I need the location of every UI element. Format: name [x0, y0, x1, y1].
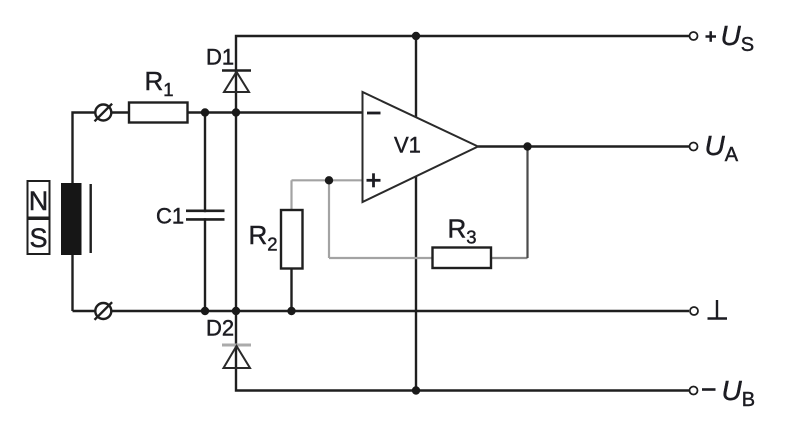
junction bottom rail [412, 386, 420, 394]
label +US [706, 20, 755, 56]
svg-text:S: S [29, 223, 47, 253]
wire R2 bottom to ground [290, 269, 292, 312]
wire feedback node down (gray) [328, 180, 330, 258]
junction noninverting node [325, 176, 333, 184]
junction R2 bottom [287, 307, 295, 315]
magnet N pole box [28, 181, 50, 218]
wire inverting input rail [103, 111, 363, 113]
wire C1 branch vertical [204, 113, 206, 312]
junction C1 top [201, 108, 209, 116]
junction output node [523, 142, 531, 150]
wire ground rail [73, 310, 690, 312]
svg-text:D1: D1 [206, 45, 234, 70]
svg-text:C1: C1 [156, 203, 184, 228]
terminal +US [690, 32, 698, 40]
resistor R1 [129, 103, 188, 123]
wire R3 right stub (gray) [491, 257, 528, 259]
terminal UA [690, 143, 698, 151]
wire output rail UA [478, 145, 689, 147]
capacitor C1 [186, 211, 225, 220]
wire D2 to bottom rail [236, 311, 689, 391]
terminal -UB [690, 387, 698, 395]
wire left sensor loop vertical [73, 113, 104, 312]
junction D2 top [232, 307, 240, 315]
terminal ground [690, 307, 698, 315]
resistor R2 [281, 210, 303, 269]
inductive sensor coil [61, 183, 82, 255]
ground symbol [708, 300, 728, 319]
wire top rail +US [236, 36, 689, 113]
svg-text:V1: V1 [394, 133, 421, 158]
wire feedback vertical to output [526, 147, 528, 259]
svg-text:D2: D2 [206, 316, 234, 341]
diode D1 [222, 71, 251, 93]
wire feedback to R3 left (gray) [329, 257, 433, 259]
wire D1-D2 branch vertical [235, 113, 237, 312]
magnet S pole box [28, 219, 50, 254]
wire noninverting input (gray) [292, 179, 363, 181]
wire op-amp supply vertical [415, 36, 417, 391]
label -UB [702, 375, 755, 411]
resistor R3 [433, 248, 492, 269]
terminal top screw [95, 104, 113, 122]
junction on top rail [412, 32, 420, 40]
terminal bottom screw [95, 302, 113, 320]
junction D1 bottom [232, 108, 240, 116]
svg-text:N: N [29, 186, 49, 216]
sensor core line [89, 184, 91, 253]
junction C1 bottom [201, 307, 209, 315]
op-amp U1 [363, 92, 479, 202]
wire R2 top connection (gray) [290, 180, 292, 210]
diode D2 [222, 345, 251, 368]
